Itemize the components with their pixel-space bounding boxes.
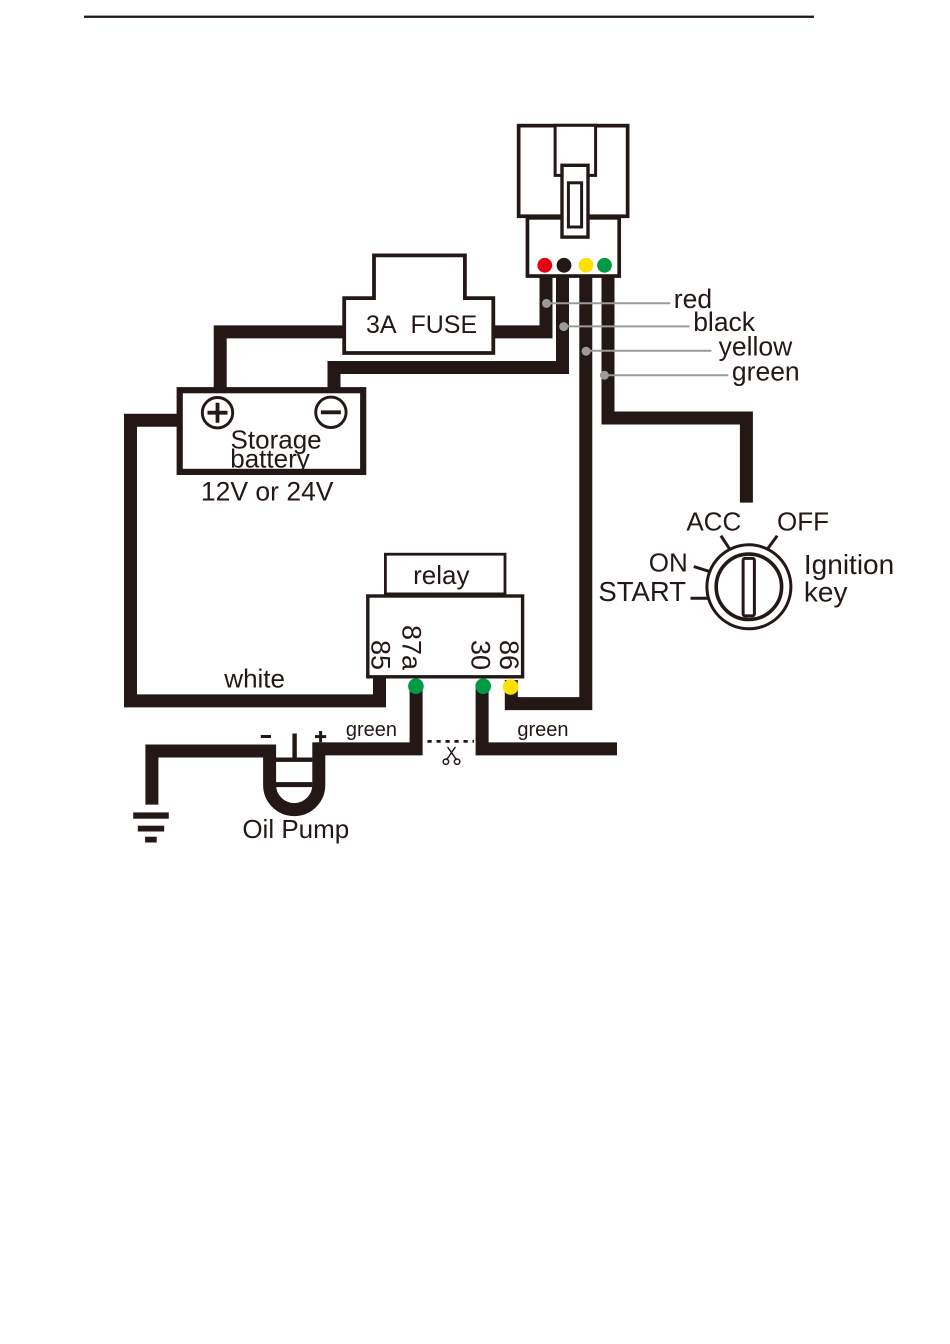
svg-text:green: green (517, 719, 568, 741)
relay pin dot green 87a (408, 678, 424, 694)
oil pump minus sign (261, 735, 271, 738)
svg-text:green: green (732, 356, 800, 386)
wire white (battery to relay 85 via left trunk) (131, 420, 380, 701)
svg-text:green: green (346, 719, 397, 741)
fuse F1 3A body (344, 255, 493, 353)
relay U2 main box (368, 596, 523, 677)
ignition key slot (743, 558, 754, 616)
scissors (443, 747, 460, 764)
svg-text:OFF: OFF (777, 506, 829, 536)
battery plus terminal (202, 398, 232, 428)
svg-text:ACC: ACC (686, 506, 741, 536)
svg-text:Ignition: Ignition (804, 549, 894, 580)
svg-text:relay: relay (413, 560, 469, 590)
wire oil pump minus to ground (152, 751, 276, 805)
wire black (connector pin to battery minus) (334, 272, 563, 390)
svg-text:START: START (598, 576, 686, 607)
oil pump plus sign (315, 731, 326, 742)
header rule (84, 16, 814, 18)
relay pin dot green 30 (475, 678, 491, 694)
svg-text:87a: 87a (397, 625, 427, 671)
connector lower body (527, 218, 619, 276)
svg-text:ON: ON (649, 547, 688, 577)
tick OFF (767, 536, 777, 550)
svg-text:86: 86 (494, 640, 524, 670)
svg-text:white: white (223, 664, 285, 694)
svg-text:3A FUSE: 3A FUSE (366, 311, 477, 339)
svg-text:12V or 24V: 12V or 24V (201, 477, 334, 507)
relay label box (385, 554, 505, 594)
svg-text:battery: battery (230, 443, 310, 473)
oil pump inner line 2 (276, 782, 312, 787)
wire green (connector pin to ignition key) (608, 272, 746, 503)
label line green (600, 356, 800, 386)
svg-text:30: 30 (466, 640, 496, 670)
ignition key switch (707, 545, 791, 629)
connector top notch (555, 125, 596, 175)
battery minus terminal (316, 397, 346, 427)
label line red (542, 284, 712, 314)
connector latch inner (568, 183, 581, 227)
wire red (connector pin to fuse) (493, 272, 546, 332)
wire green relay 30 to right (482, 684, 617, 749)
oil pump dipstick (292, 734, 296, 760)
pin dot black (557, 258, 572, 273)
pin dot red (537, 258, 552, 273)
svg-text:Oil Pump: Oil Pump (242, 814, 349, 844)
label line black (559, 307, 756, 337)
connector top housing (519, 126, 628, 217)
label line yellow (582, 331, 794, 361)
wire fuse to battery plus (220, 332, 346, 390)
oil pump inner line 1 (276, 758, 312, 762)
wire yellow (connector pin to relay 86) (511, 272, 586, 704)
tick ACC (721, 536, 731, 551)
svg-text:85: 85 (365, 640, 395, 670)
pin dot yellow (579, 258, 594, 273)
battery B1 box (180, 390, 364, 472)
cut dashed line (428, 740, 475, 743)
oil pump body (270, 742, 319, 809)
tick START (691, 597, 709, 600)
wire green relay 87a to oil pump (316, 684, 416, 749)
svg-text:key: key (804, 577, 848, 608)
connector latch outer (562, 165, 588, 237)
relay pin dot yellow 86 (503, 679, 519, 695)
ground symbol (133, 812, 169, 842)
pin dot green (597, 258, 612, 273)
tick ON (694, 567, 710, 572)
